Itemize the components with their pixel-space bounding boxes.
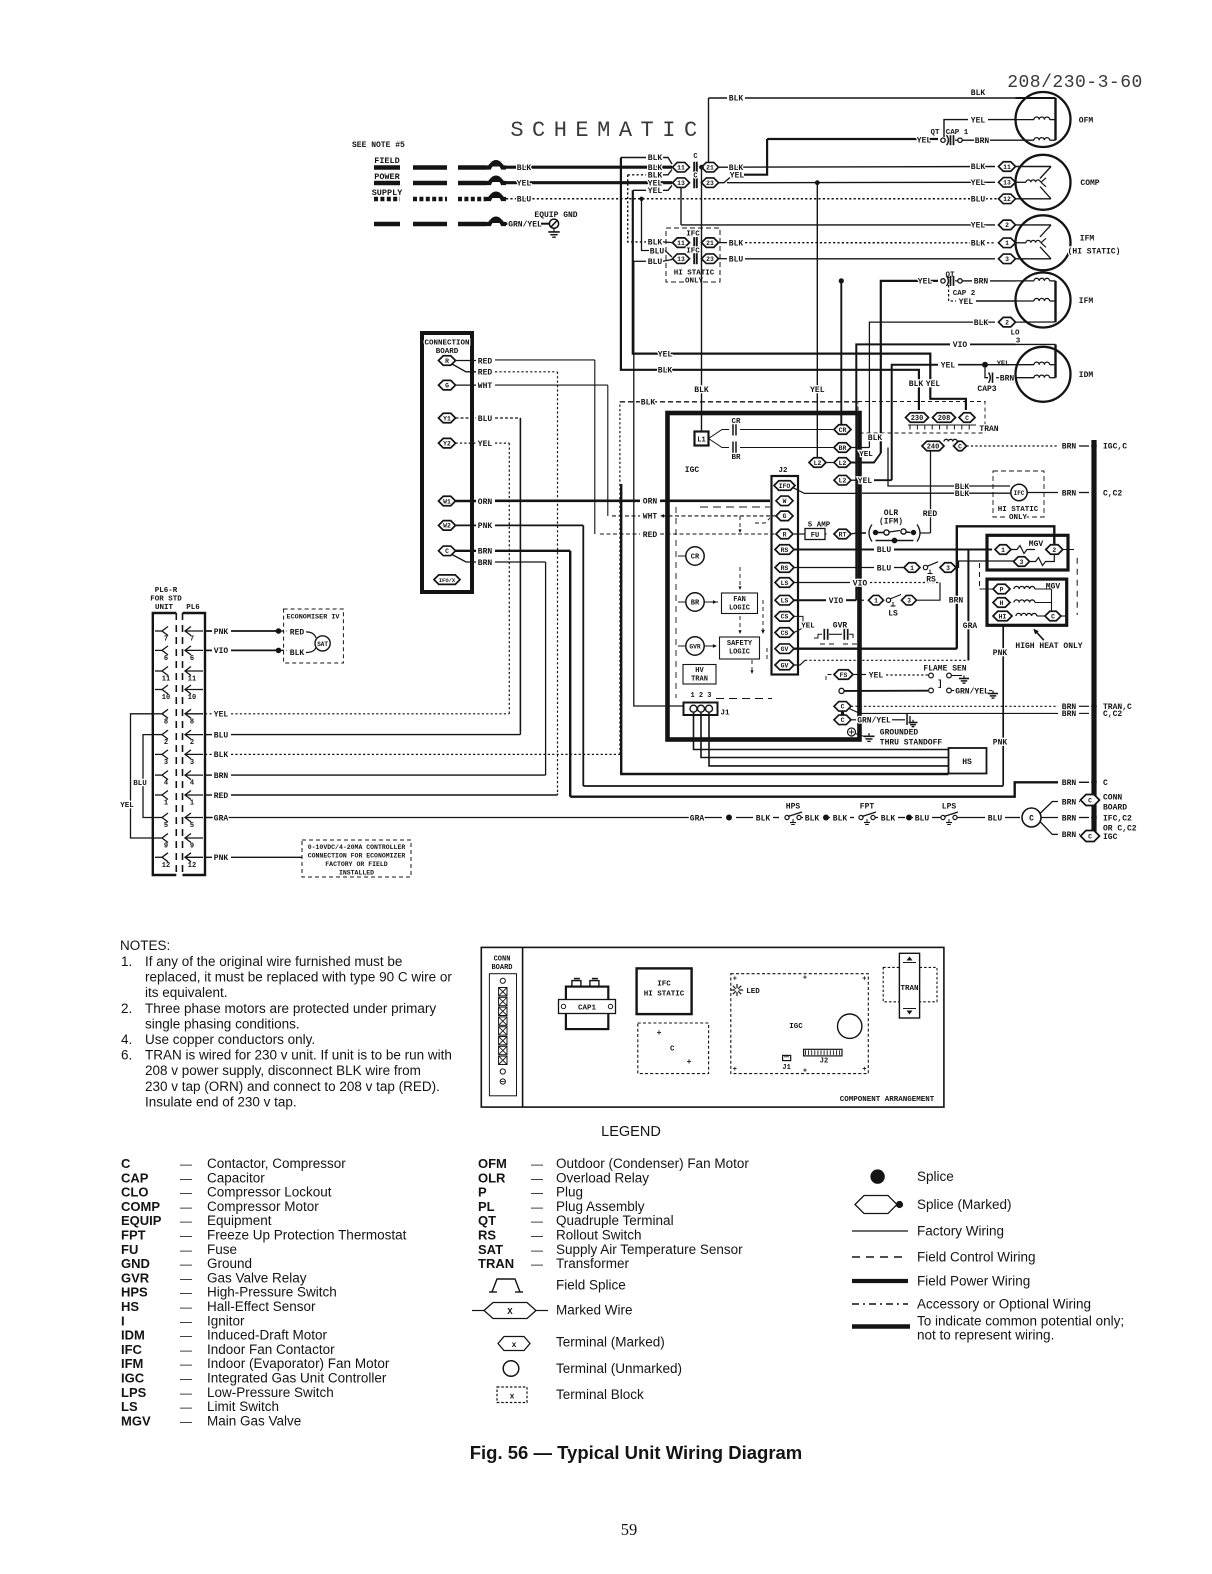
wire C coil to conn board hex [1040, 802, 1058, 814]
svg-text:]: ] [937, 679, 942, 689]
svg-text:240: 240 [927, 443, 940, 451]
svg-text:12: 12 [1003, 196, 1011, 203]
PL6 pin 9 [155, 837, 162, 839]
wire YEL down to L2 [816, 183, 818, 463]
svg-text:R: R [783, 531, 787, 538]
svg-text:+: + [862, 976, 866, 984]
svg-text:YEL: YEL [478, 440, 493, 449]
svg-text:PNK: PNK [993, 649, 1008, 658]
wire BRN row2 from C diagonal [452, 555, 476, 563]
svg-text:TRAN: TRAN [979, 425, 998, 434]
wire BRN QT to IFM [962, 280, 972, 282]
svg-text:YEL: YEL [959, 298, 974, 307]
svg-text:BLU: BLU [517, 196, 532, 205]
svg-text:VIO: VIO [953, 341, 968, 350]
svg-text:TRAN: TRAN [900, 985, 918, 993]
svg-text:PNK: PNK [993, 739, 1008, 748]
arrow GVR to safety logic [704, 645, 716, 647]
svg-text:C,C2: C,C2 [1103, 489, 1122, 498]
MGV1 terminal in [995, 545, 1011, 555]
svg-text:BLK: BLK [517, 164, 532, 173]
PL6 loop YEL pins 8-9 [131, 714, 156, 838]
J2 terminal RS2 [775, 563, 794, 573]
svg-text:PNK: PNK [214, 628, 229, 637]
svg-text:GRA: GRA [214, 814, 229, 823]
wire GV1 thick to MGV bracket [794, 648, 957, 650]
svg-text:GVR: GVR [689, 644, 701, 651]
wire BLK upper into IFC coil [905, 485, 1010, 487]
svg-text:ONLY: ONLY [1009, 514, 1028, 522]
svg-text:+: + [803, 975, 807, 983]
svg-text:Outdoor (Condenser) Fan Motor: Outdoor (Condenser) Fan Motor [556, 1156, 749, 1171]
wire BR hex to BLK riser [851, 447, 869, 449]
terminal C [439, 546, 456, 556]
svg-text:23: 23 [706, 180, 714, 187]
wire YEL row2 IFM [976, 300, 1016, 302]
svg-text:IGC,C: IGC,C [1103, 443, 1127, 452]
svg-text:Supply Air Temperature Sensor: Supply Air Temperature Sensor [556, 1242, 743, 1257]
svg-text:Ignitor: Ignitor [207, 1313, 245, 1328]
svg-text:Gas Valve Relay: Gas Valve Relay [207, 1270, 307, 1285]
svg-text:single phasing conditions.: single phasing conditions. [145, 1016, 300, 1031]
TRAN secondary winding [944, 439, 957, 441]
wire dotted to TRAN-C common [851, 705, 1058, 707]
wire PNK from HI down [1002, 625, 1004, 786]
svg-text:—: — [180, 1229, 192, 1243]
wire BLK accessory tap row3 [628, 174, 646, 176]
svg-text:11: 11 [1003, 164, 1011, 171]
marked splice C IGC [1081, 831, 1100, 842]
svg-text:BLU: BLU [648, 258, 663, 267]
svg-text:Fuse: Fuse [207, 1242, 237, 1257]
field splice BLK [486, 163, 506, 167]
MGV1 squiggle [1011, 546, 1035, 554]
svg-text:IDM: IDM [121, 1328, 145, 1343]
svg-text:CLO: CLO [121, 1185, 148, 1200]
TRAN terminal C [959, 413, 975, 423]
wire RED pin1 [205, 794, 212, 796]
svg-text:RED: RED [923, 510, 938, 519]
legend symbol terminal unmarked [503, 1361, 519, 1377]
svg-text:HIGH HEAT ONLY: HIGH HEAT ONLY [1015, 642, 1082, 651]
svg-text:BRN: BRN [214, 772, 229, 781]
svg-text:YEL: YEL [869, 671, 884, 680]
svg-text:PL6-R: PL6-R [155, 587, 178, 595]
terminal C2 [834, 715, 851, 725]
svg-text:FACTORY OR FIELD: FACTORY OR FIELD [325, 861, 388, 868]
svg-text:Induced-Draft Motor: Induced-Draft Motor [207, 1328, 328, 1343]
wire BLU IFC to motor 3 [719, 258, 728, 260]
wires J1 to HS [694, 712, 949, 750]
svg-text:—: — [531, 1229, 543, 1243]
wire GRN/YEL ground row [851, 719, 856, 721]
svg-text:VIO: VIO [829, 597, 844, 606]
svg-text:BLU: BLU [971, 196, 986, 205]
svg-text:Marked Wire: Marked Wire [556, 1303, 633, 1318]
svg-text:BRN: BRN [975, 137, 990, 146]
svg-text:FIELD: FIELD [374, 156, 400, 166]
terminal G [439, 380, 456, 390]
wire L2 lower YEL out [851, 479, 856, 481]
svg-text:J2: J2 [778, 467, 788, 475]
svg-text:COMP: COMP [121, 1199, 160, 1214]
svg-text:—: — [531, 1214, 543, 1228]
J2 terminal LS2 [775, 595, 794, 605]
terminal 2 IFM-HI [999, 220, 1016, 230]
wire GRA riser [967, 550, 969, 661]
contactor coil IFC [1011, 484, 1027, 500]
wire CS1 bracket [794, 616, 803, 632]
svg-text:BLU: BLU [133, 780, 147, 788]
svg-text:SUPPLY: SUPPLY [372, 188, 404, 198]
conn board strip divider [522, 947, 524, 1107]
TRAN terminal 208 [933, 413, 956, 423]
motor IFM [1016, 273, 1071, 328]
wire BLU2 to IFC 13 [634, 260, 646, 262]
high pressure switch HPS [785, 815, 789, 819]
svg-text:C,C2: C,C2 [1103, 710, 1122, 719]
svg-text:OR C,C2: OR C,C2 [1103, 824, 1137, 833]
svg-text:LS: LS [781, 598, 789, 605]
PL6 pin 8 [155, 713, 162, 715]
dashed box TRAN accessory [858, 402, 985, 434]
wire YEL flame sensor [853, 674, 866, 676]
svg-text:+: + [733, 976, 737, 984]
svg-text:RED: RED [478, 357, 493, 366]
svg-text:To indicate common potential o: To indicate common potential only; [917, 1314, 1124, 1329]
wire RS2 BLU row [794, 567, 874, 569]
svg-text:RED: RED [643, 531, 658, 540]
svg-text:H: H [1000, 600, 1004, 607]
svg-text:(IFM): (IFM) [879, 518, 903, 527]
J2 terminal GV2 [775, 660, 794, 670]
svg-text:2: 2 [1005, 222, 1009, 229]
wire YEL row to IFM-HI terminal 2 [680, 188, 682, 225]
svg-text:FS: FS [840, 672, 848, 679]
svg-text:YEL: YEL [918, 278, 933, 287]
svg-text:If any of the original wi: If any of the original wire furnished mu… [145, 954, 402, 969]
svg-text:Terminal (Marked): Terminal (Marked) [556, 1335, 665, 1350]
svg-text:7: 7 [164, 636, 168, 644]
svg-text:YEL: YEL [858, 477, 873, 486]
svg-text:TRAN: TRAN [478, 1256, 514, 1271]
PL6 pin 10 [155, 689, 162, 691]
svg-text:Freeze Up Protection Thermosta: Freeze Up Protection Thermostat [207, 1228, 407, 1243]
wire YEL to contactor [506, 181, 672, 184]
svg-text:1: 1 [910, 565, 914, 572]
wire WHT from G [456, 384, 477, 386]
wire IFO to HS row [620, 773, 948, 775]
field splice BLU [486, 195, 506, 199]
svg-text:BLK: BLK [641, 399, 656, 408]
svg-text:W2: W2 [443, 523, 451, 530]
svg-text:CONN: CONN [1103, 794, 1122, 803]
wire dashed BLK accessory row [620, 401, 858, 403]
J2 terminal strip box [772, 476, 799, 675]
svg-text:FU: FU [811, 532, 819, 540]
wire BLK pin3 [205, 753, 212, 755]
terminal W2 [439, 521, 456, 531]
svg-text:COMP: COMP [1080, 179, 1099, 188]
HV TRAN box [683, 665, 716, 685]
svg-text:Splice (Marked): Splice (Marked) [917, 1197, 1012, 1212]
svg-text:LEGEND: LEGEND [601, 1124, 661, 1140]
wire YEL row to COMP 13 [727, 181, 995, 183]
sensor SAT [315, 636, 330, 651]
svg-text:YEL: YEL [120, 802, 134, 810]
svg-text:BLU: BLU [877, 564, 892, 573]
IFC terminal 13 [673, 254, 690, 264]
svg-text:—: — [180, 1300, 192, 1314]
svg-text:L2: L2 [839, 478, 847, 485]
IFC terminal 21 [702, 238, 719, 248]
svg-text:2: 2 [1005, 319, 1009, 326]
field splice GRN/YEL [486, 220, 506, 224]
svg-text:C: C [670, 1046, 675, 1054]
wire dashed P feed [979, 563, 981, 589]
wire WHT dashed into G [612, 515, 640, 517]
svg-text:—: — [180, 1286, 192, 1300]
contactor C contact upper [693, 162, 695, 173]
limit switch LS outer [859, 599, 864, 601]
legend symbol common potential [852, 1324, 910, 1329]
svg-text:BRN: BRN [949, 597, 964, 606]
svg-text:Field Splice: Field Splice [556, 1278, 626, 1293]
MGV1 squiggle2 [1030, 555, 1055, 566]
svg-text:TRAN is wired for 230 v unit.: TRAN is wired for 230 v unit. If unit is… [145, 1048, 452, 1063]
wire BRN pin4 [205, 774, 212, 776]
svg-text:Three phase motors are pro: Three phase motors are protected under p… [145, 1001, 436, 1016]
MGV box 1 [987, 535, 1068, 570]
svg-text:QT: QT [478, 1213, 496, 1228]
svg-text:OFM: OFM [478, 1156, 507, 1171]
rollout switch RS [904, 563, 920, 573]
svg-text:—: — [180, 1214, 192, 1228]
svg-text:IFC: IFC [657, 981, 671, 989]
PL6 pin 12 [155, 856, 162, 858]
link bar between C terminals [841, 711, 844, 717]
wire PNK bottom to riser [583, 785, 1003, 787]
svg-text:WHT: WHT [643, 513, 658, 522]
svg-text:2: 2 [190, 739, 194, 747]
svg-text:BLK: BLK [833, 814, 848, 823]
wire BLK down to L1 [701, 167, 703, 431]
svg-text:Capacitor: Capacitor [207, 1170, 265, 1185]
svg-text:11: 11 [162, 676, 170, 684]
svg-text:RED: RED [478, 369, 493, 378]
svg-text:0-10VDC/4-20MA CONTROLLER: 0-10VDC/4-20MA CONTROLLER [308, 844, 406, 851]
svg-text:P: P [1000, 586, 1004, 593]
wire BLK riser from contactor to TRAN row [621, 158, 913, 370]
splice dot PNK econ [276, 628, 282, 634]
svg-text:C: C [841, 717, 845, 724]
wire YEL riser to IFM QT [881, 281, 938, 453]
terminal R [439, 356, 456, 366]
svg-text:10: 10 [162, 694, 170, 702]
terminal L1 [695, 432, 709, 446]
svg-text:WHT: WHT [478, 382, 493, 391]
BR contact [709, 439, 730, 448]
terminal 12 COMP [999, 194, 1016, 204]
wire BRN TRAN-C to common bar [967, 445, 1059, 447]
J2 terminal G [776, 511, 793, 521]
IFC HI STATIC component box [637, 968, 692, 1014]
svg-text:GRN/YEL: GRN/YEL [508, 220, 542, 229]
MGV2 coil HI [1016, 613, 1037, 616]
contactor C terminal 13 [673, 178, 690, 188]
svg-text:BOARD: BOARD [1103, 804, 1127, 813]
svg-text:Hall-Effect Sensor: Hall-Effect Sensor [207, 1299, 316, 1314]
wire C coil to IGC common [1040, 822, 1058, 835]
svg-text:C: C [693, 173, 697, 181]
svg-text:GRA: GRA [690, 814, 705, 823]
svg-text:IFC: IFC [1014, 490, 1025, 497]
HS hall effect sensor box [949, 748, 987, 774]
svg-text:C: C [958, 443, 962, 450]
J2 terminal IFO [774, 481, 795, 491]
wire power YEL dashes [374, 181, 400, 186]
terminal W1 [439, 496, 456, 506]
J2 terminal GV1 [775, 644, 794, 654]
svg-text:—: — [180, 1414, 192, 1428]
svg-text:Compressor Lockout: Compressor Lockout [207, 1185, 332, 1200]
svg-text:C: C [1088, 797, 1092, 804]
motor IDM [1016, 347, 1071, 402]
PL6 loop BLU pins 2-5 [143, 735, 155, 818]
wire RED row1 from R [456, 360, 477, 362]
svg-text:BLK: BLK [214, 751, 229, 760]
svg-text:11: 11 [677, 240, 685, 247]
svg-text:HI STATIC: HI STATIC [998, 506, 1039, 514]
PL6 pin 1 [155, 794, 162, 796]
TRAN secondary terminal C [954, 441, 967, 451]
wire RED TRAN tap down to OLR [930, 450, 932, 533]
arrow down left of LS [762, 600, 764, 630]
svg-text:—: — [180, 1271, 192, 1285]
wire YEL riser to PL6 [508, 443, 510, 712]
svg-text:RS: RS [478, 1228, 496, 1243]
svg-text:FOR STD: FOR STD [150, 596, 182, 604]
svg-text:YEL: YEL [941, 362, 956, 371]
wire ORN from W1 to IGC W [456, 500, 477, 503]
PL6 pin 5 [155, 817, 162, 819]
wire BLU accessory row to COMP terminal 12 [506, 198, 998, 200]
svg-text:—: — [180, 1329, 192, 1343]
svg-text:ONLY: ONLY [685, 278, 704, 286]
svg-text:BLK: BLK [955, 490, 970, 499]
svg-text:PNK: PNK [478, 522, 493, 531]
svg-text:+: + [803, 1068, 807, 1076]
wire C,C2 diagonal to bar [849, 709, 1058, 714]
svg-text:CS: CS [781, 630, 789, 637]
svg-text:—: — [531, 1200, 543, 1214]
svg-text:NOTES:: NOTES: [120, 938, 170, 953]
wire BLK to contactor [506, 166, 672, 169]
IFC contact upper [693, 237, 695, 248]
svg-text:HS: HS [962, 758, 972, 767]
wire PNK riser down [582, 525, 584, 786]
PL6 pin 4 [155, 774, 162, 776]
svg-text:RS: RS [926, 576, 936, 585]
svg-text:LOGIC: LOGIC [729, 605, 750, 613]
J1 connector component [783, 1055, 791, 1060]
wire RS1 BLU row [794, 549, 874, 551]
svg-text:L2: L2 [839, 460, 847, 467]
wire BLK C21 up to OFM [719, 166, 728, 168]
flame sensor row2 [839, 688, 844, 693]
svg-text:13: 13 [1003, 180, 1011, 187]
svg-text:R: R [445, 358, 449, 365]
wire BLU pin2 [205, 734, 212, 736]
J2 connector component [804, 1049, 842, 1056]
svg-text:IFM: IFM [1080, 235, 1095, 244]
svg-text:BLK: BLK [971, 89, 986, 98]
capacitor CAP3 [985, 368, 988, 378]
MGV1 terminal 2 [1046, 545, 1063, 555]
svg-text:BRN: BRN [1062, 779, 1077, 788]
svg-text:SEE NOTE #5: SEE NOTE #5 [352, 141, 405, 150]
svg-text:—: — [180, 1186, 192, 1200]
svg-text:4: 4 [190, 780, 194, 788]
wire PNK from W2 [456, 524, 477, 526]
svg-text:Factory Wiring: Factory Wiring [917, 1224, 1004, 1239]
svg-text:C: C [1051, 613, 1055, 620]
wire YEL riser to TRAN row [633, 190, 925, 353]
svg-text:Ground: Ground [207, 1256, 252, 1271]
J2 terminal R [776, 529, 793, 539]
svg-text:10: 10 [188, 694, 196, 702]
svg-text:L1: L1 [697, 437, 705, 445]
svg-text:230 v tap (ORN) and connect to: 230 v tap (ORN) and connect to 208 v tap… [145, 1079, 440, 1094]
svg-text:GRN/YEL: GRN/YEL [955, 687, 989, 696]
svg-text:LS: LS [888, 610, 898, 619]
wire BLK lower into IFC coil [862, 492, 1010, 494]
svg-text:CAP1: CAP1 [578, 1004, 597, 1012]
svg-text:1: 1 [874, 598, 878, 605]
PL6 connector box [183, 613, 206, 875]
svg-text:—: — [180, 1257, 192, 1271]
svg-text:BRN: BRN [974, 278, 989, 287]
svg-text:ORN: ORN [478, 498, 493, 507]
wire VIO dashed LS1 row [794, 582, 850, 584]
svg-text:6: 6 [190, 655, 194, 663]
motor COMP [1016, 155, 1071, 210]
svg-text:+: + [657, 1029, 662, 1038]
terminal 11 COMP [999, 162, 1016, 172]
svg-text:POWER: POWER [374, 172, 400, 182]
low pressure switch LPS [941, 815, 945, 819]
svg-text:GROUNDED: GROUNDED [880, 729, 919, 738]
svg-text:YEL: YEL [926, 380, 941, 389]
terminal BR [834, 443, 851, 453]
svg-text:SAT: SAT [317, 641, 328, 648]
wire ground GRN/YEL dashes [374, 222, 400, 227]
svg-text:HI STATIC: HI STATIC [674, 270, 715, 278]
MGV2 terminal P [993, 584, 1010, 594]
MGV2 coil H [1014, 600, 1035, 603]
TRAN secondary terminal 240 [922, 441, 944, 451]
svg-text:Plug Assembly: Plug Assembly [556, 1199, 645, 1214]
wire RED dashed into R [600, 533, 640, 535]
J2 terminal RS1 [775, 545, 794, 555]
svg-text:—: — [180, 1171, 192, 1185]
svg-text:BLU: BLU [877, 546, 892, 555]
dashed box IFC hi static only [666, 228, 720, 282]
svg-text:SAFETY: SAFETY [727, 640, 753, 648]
svg-text:C: C [693, 153, 697, 161]
svg-text:BLK: BLK [881, 814, 896, 823]
svg-text:C: C [1029, 815, 1034, 824]
